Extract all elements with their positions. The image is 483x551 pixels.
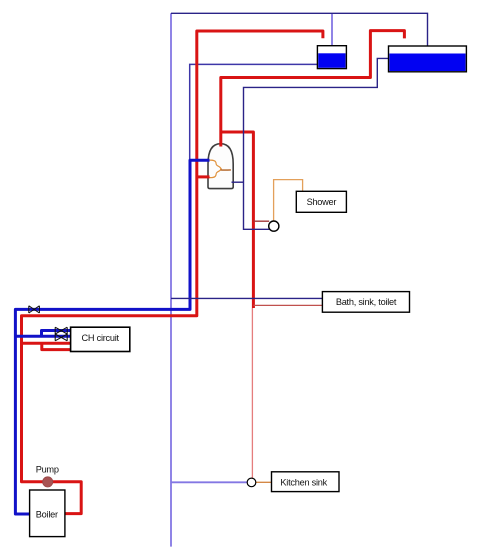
wire: hot distribution down-pipe bbox=[221, 132, 254, 308]
pump bbox=[43, 477, 53, 487]
wire: cold main to tanks (top header) bbox=[171, 13, 428, 46]
svg-text:Bath, sink, toilet: Bath, sink, toilet bbox=[336, 297, 397, 307]
svg-text:Pump: Pump bbox=[36, 464, 59, 474]
svg-text:Kitchen sink: Kitchen sink bbox=[280, 477, 327, 487]
kitchen sink tap bbox=[247, 478, 256, 487]
coil inside cylinder (upper strand) bbox=[208, 160, 221, 170]
wire: storage tank cold feed to cylinder and shower bbox=[244, 58, 389, 229]
wire: hot line to shower mixer bbox=[253, 220, 269, 222]
wire: CH flow connection bbox=[22, 342, 71, 345]
wire: kitchen cold branch bbox=[171, 481, 247, 483]
wire: primary return from cylinder to boiler bbox=[15, 160, 209, 514]
tank: cold water storage cistern bbox=[389, 46, 467, 72]
svg-text:CH circuit: CH circuit bbox=[82, 333, 120, 343]
label box: Kitchen sink bbox=[272, 472, 340, 492]
wire: small tank outlet to primary junction bbox=[190, 64, 318, 160]
hot water cylinder bbox=[208, 144, 233, 189]
svg-text:Boiler: Boiler bbox=[36, 509, 58, 519]
wire: primary flow into cylinder coil bbox=[197, 175, 210, 178]
wire: cold feed stub into cylinder bbox=[232, 181, 244, 183]
shower mixer valve bbox=[269, 221, 279, 231]
tank: feed and expansion tank bbox=[317, 46, 346, 69]
wire: mixed water to shower bbox=[274, 180, 303, 221]
wire: hot draw-off and vent over storage tank bbox=[221, 31, 405, 147]
label box: CH circuit bbox=[71, 327, 130, 351]
label box: Bath, sink, toilet bbox=[322, 292, 409, 313]
wire: hot line to bath sink toilet bbox=[253, 304, 322, 306]
wire: CH flow lower branch bbox=[42, 343, 71, 349]
boiler box bbox=[30, 490, 65, 537]
coil inside cylinder (lower strand) bbox=[208, 168, 221, 178]
wire: feed drop to small tank bbox=[331, 13, 333, 45]
wire: hot line down to kitchen sink bbox=[251, 308, 253, 478]
wire: rising main (periwinkle cold supply vertical) bbox=[170, 13, 172, 546]
wire: kitchen sink tap connector bbox=[256, 481, 272, 483]
wire: cold line to bath sink toilet bbox=[171, 297, 322, 299]
valve pair V2 V3 on CH connections bbox=[55, 327, 67, 341]
label box: Shower bbox=[296, 191, 346, 212]
valve V1 on primary return bbox=[29, 306, 40, 313]
wire: CH return connection bbox=[15, 335, 70, 338]
wire: primary hot main (boiler flow, vent over F&E tank) bbox=[22, 31, 323, 514]
svg-text:Shower: Shower bbox=[307, 197, 337, 207]
coil tail bbox=[221, 169, 231, 171]
wire: CH return upper branch bbox=[42, 331, 71, 337]
